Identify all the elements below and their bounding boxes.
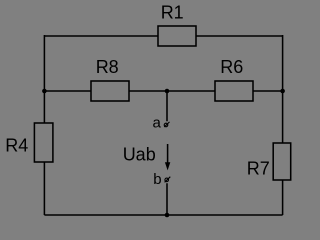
svg-text:R6: R6 [220,57,243,77]
svg-text:R4: R4 [5,136,28,156]
svg-text:a: a [153,115,162,132]
svg-text:R8: R8 [96,57,119,77]
svg-text:b: b [153,171,161,188]
svg-text:R1: R1 [161,3,184,23]
svg-text:R7: R7 [247,158,270,178]
svg-text:Uab: Uab [123,144,156,164]
